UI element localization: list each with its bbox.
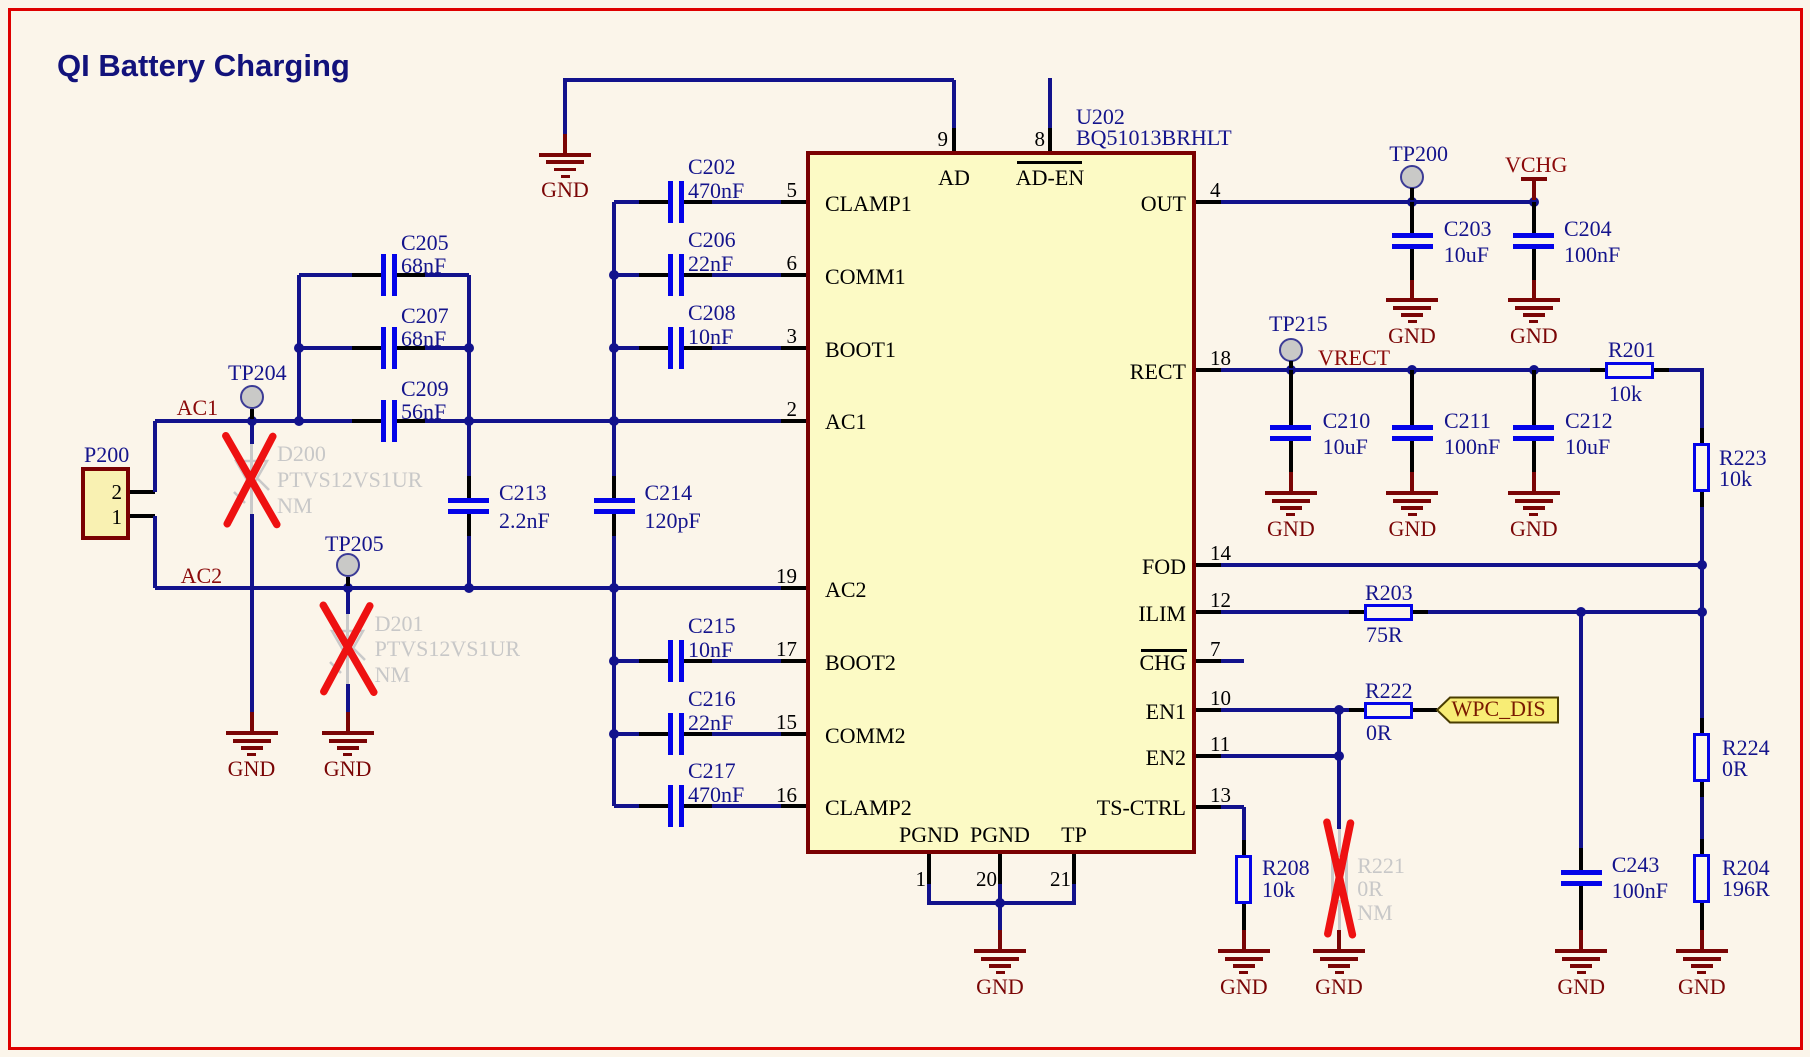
testpoint TP215 xyxy=(1279,338,1303,362)
pin 7 CHG stub xyxy=(1196,659,1221,663)
D200 labels xyxy=(277,443,326,465)
wire rail mid xyxy=(1700,507,1704,718)
wire C205 left xyxy=(299,273,352,277)
pin 3 BOOT1 stub xyxy=(781,346,806,350)
pin name PGND bottom xyxy=(779,824,1079,846)
pin name TS-CTRL xyxy=(886,797,1186,819)
diode D201 greyed xyxy=(346,614,349,684)
pin name RECT xyxy=(886,361,1186,383)
capacitor C209 xyxy=(352,419,381,423)
P200 pin1 label xyxy=(0,507,122,528)
pin 15 number xyxy=(497,712,797,733)
capacitor C206 xyxy=(639,273,668,277)
pin name AD xyxy=(804,167,1104,189)
D201 labels xyxy=(375,613,424,635)
pin name BOOT2 xyxy=(825,652,896,674)
wire C202 left xyxy=(614,200,639,204)
ground PGND xyxy=(974,949,1026,953)
pin 14 number xyxy=(1210,543,1231,564)
wire right bus to C213 xyxy=(467,421,471,478)
gnd stem C210 xyxy=(1289,463,1293,472)
gnd stem R204 xyxy=(1700,930,1704,949)
capacitor C207 xyxy=(352,346,381,350)
gnd stem D200 xyxy=(250,712,254,731)
junction OUT/TP200 xyxy=(1407,197,1417,207)
node AC2 label xyxy=(181,565,223,587)
TP205 label xyxy=(325,533,384,555)
junction rail/FOD xyxy=(1697,560,1707,570)
capacitor C203 xyxy=(1410,202,1414,235)
junction AC1/left bus xyxy=(294,416,304,426)
wire D201 to gnd xyxy=(346,684,350,712)
wire ILIM right xyxy=(1428,610,1702,614)
wire PGND riser 21 xyxy=(1072,884,1076,905)
pin 20 PGND stub xyxy=(998,854,1002,884)
pin 5 number xyxy=(497,180,797,201)
gnd stem C243 xyxy=(1579,886,1583,930)
pin name AC2 xyxy=(825,579,867,601)
junction rail/ILIM xyxy=(1697,607,1707,617)
pin 18 number xyxy=(1210,348,1231,369)
pin 19 number xyxy=(497,566,797,587)
ground C210 xyxy=(1265,491,1317,495)
wire D200 to gnd xyxy=(250,514,254,712)
power VCHG xyxy=(1532,181,1536,200)
node AC1 label xyxy=(177,397,219,419)
pin 1 number xyxy=(626,869,926,890)
diode D200 greyed xyxy=(250,444,253,514)
junction EN2 branch xyxy=(1334,751,1344,761)
gnd stem D201 xyxy=(346,712,350,731)
pin name TP bottom xyxy=(924,824,1224,846)
junction left bus C207 xyxy=(294,343,304,353)
wire C205 right xyxy=(425,273,469,277)
wire P200 pin1 dropper xyxy=(153,516,157,588)
junction OUT/VCHG xyxy=(1529,197,1539,207)
resistor R208 xyxy=(1242,840,1246,855)
wire C217 left xyxy=(614,804,639,808)
ground C211 xyxy=(1386,491,1438,495)
testpoint TP200 xyxy=(1400,165,1424,189)
ground R204 xyxy=(1676,949,1728,953)
pin name EN2 xyxy=(886,747,1186,769)
P200 pin 2 stub xyxy=(130,490,155,494)
pin 17 BOOT2 stub xyxy=(781,659,806,663)
pin 11 EN2 stub xyxy=(1196,754,1221,758)
capacitor C214 xyxy=(612,476,616,498)
P200 pin 1 stub xyxy=(130,514,155,518)
wire rail lower xyxy=(1700,797,1704,839)
wire FOD xyxy=(1221,563,1702,567)
ground C243 xyxy=(1555,949,1607,953)
wire AC1 segment a xyxy=(155,419,353,423)
gnd stem R208 xyxy=(1242,930,1246,949)
gnd stem C203 xyxy=(1410,270,1414,280)
testpoint TP205 xyxy=(336,553,360,577)
wire C216 right xyxy=(712,732,781,736)
gnd stem C212 xyxy=(1532,463,1536,472)
gnd stem R221 xyxy=(1337,930,1341,949)
pin 4 OUT stub xyxy=(1196,200,1221,204)
wire top gnd drop xyxy=(563,80,567,135)
pin 9 stub xyxy=(952,128,956,151)
pin 21 number xyxy=(771,869,1071,890)
pin name EN1 xyxy=(886,701,1186,723)
wire C216 left xyxy=(614,732,639,736)
pin 4 number xyxy=(1210,180,1221,201)
ground R208 xyxy=(1218,949,1270,953)
pin 16 CLAMP2 stub xyxy=(781,804,806,808)
junction mid bus C216 xyxy=(609,729,619,739)
pin 15 COMM2 stub xyxy=(781,732,806,736)
wire right bus upper xyxy=(467,275,471,421)
gnd stem top xyxy=(563,134,567,153)
wire RECT xyxy=(1221,368,1590,372)
pin name CLAMP2 xyxy=(825,797,912,819)
resistor R222 xyxy=(1349,708,1364,712)
wire R222 to port xyxy=(1413,708,1438,712)
wire C215 right xyxy=(712,659,781,663)
resistor R201 xyxy=(1590,368,1605,372)
junction RECT/TP215 xyxy=(1286,365,1296,375)
wire AC1 segment b xyxy=(425,419,781,423)
wire C208 left xyxy=(614,346,639,350)
wire EN2 xyxy=(1221,754,1339,758)
capacitor C213 xyxy=(467,476,471,498)
pin 8 stub xyxy=(1048,128,1052,151)
wire TS-CTRL xyxy=(1221,805,1244,809)
junction EN1 branch xyxy=(1334,705,1344,715)
wire TP204 down xyxy=(250,421,254,445)
ground R221 xyxy=(1313,949,1365,953)
wire PGND riser 20 xyxy=(998,884,1002,905)
capacitor C210 xyxy=(1289,370,1293,427)
wire C243 drop xyxy=(1579,612,1583,854)
resistor R224 xyxy=(1700,718,1704,733)
wire C208 right xyxy=(712,346,781,350)
wire ILIM left xyxy=(1221,610,1349,614)
wire left bus xyxy=(297,275,301,421)
junction AC1/mid bus xyxy=(609,416,619,426)
pin 12 ILIM stub xyxy=(1196,610,1221,614)
wire EN1 branch down xyxy=(1337,710,1341,829)
pin 17 number xyxy=(497,639,797,660)
wire C206 left xyxy=(614,273,639,277)
capacitor C211 xyxy=(1410,370,1414,427)
pin name AC1 xyxy=(825,411,867,433)
wire pin 9 vertical xyxy=(952,80,956,129)
pin 16 number xyxy=(497,785,797,806)
P200 label xyxy=(84,444,129,466)
gnd stem C211 xyxy=(1410,463,1414,472)
junction mid bus C206 xyxy=(609,270,619,280)
gnd stem C204 xyxy=(1532,270,1536,280)
wire mid bus lower xyxy=(612,536,616,807)
pin 8 number xyxy=(745,129,1045,150)
wire OUT xyxy=(1221,200,1534,204)
testpoint TP204 xyxy=(240,385,264,409)
pin 10 number xyxy=(1210,688,1231,709)
pin name ILIM xyxy=(886,603,1186,625)
wire CHG stub xyxy=(1221,659,1244,663)
pin 9 number xyxy=(648,129,948,150)
wire PGND riser 1 xyxy=(927,884,931,905)
junction AC1/right bus xyxy=(464,416,474,426)
pin 19 AC2 stub xyxy=(781,586,806,590)
pin 1 PGND stub xyxy=(927,854,931,884)
wire PGND horizontal xyxy=(929,901,1074,905)
resistor R204 xyxy=(1700,839,1704,854)
pin 10 EN1 stub xyxy=(1196,708,1221,712)
resistor R221 greyed xyxy=(1338,829,1341,854)
node VRECT label xyxy=(1318,347,1390,369)
pin 13 TS-CTRL stub xyxy=(1196,805,1221,809)
wire C213 to AC2 xyxy=(467,536,471,589)
wire R201 to rail xyxy=(1669,368,1704,372)
capacitor C217 xyxy=(639,804,668,808)
pin name CHG with overline xyxy=(886,652,1186,674)
wire C206 right xyxy=(712,273,781,277)
connector P200 body xyxy=(81,467,130,540)
junction mid bus C215 xyxy=(609,656,619,666)
capacitor C205 xyxy=(352,273,381,277)
junction AC1/TP204 xyxy=(247,416,257,426)
junction mid bus C208 xyxy=(609,343,619,353)
pin 13 number xyxy=(1210,785,1231,806)
pin 6 number xyxy=(497,253,797,274)
capacitor C243 xyxy=(1579,854,1583,870)
TP204 label xyxy=(228,362,287,384)
ground top xyxy=(539,153,591,157)
pin name PGND bottom xyxy=(850,824,1150,846)
pin name COMM2 xyxy=(825,725,906,747)
wire top horizontal to pin 9 xyxy=(563,78,954,82)
pin name COMM1 xyxy=(825,266,906,288)
pin 11 number xyxy=(1210,734,1230,755)
pin 2 number xyxy=(497,399,797,420)
wire C207 right xyxy=(425,346,469,350)
op-amp U202 body xyxy=(806,151,1196,854)
ground C203 xyxy=(1386,298,1438,302)
pin name AD-EN xyxy=(900,167,1200,189)
pin 2 AC1 stub xyxy=(781,419,806,423)
capacitor C212 xyxy=(1532,370,1536,427)
title QI Battery Charging xyxy=(57,50,350,81)
wire EN1 left xyxy=(1221,708,1349,712)
capacitor C215 xyxy=(639,659,668,663)
wire TP205 down xyxy=(346,588,350,614)
junction RECT/C212 xyxy=(1529,365,1539,375)
junction RECT/C211 xyxy=(1407,365,1417,375)
pin 21 TP stub xyxy=(1072,854,1076,884)
U202 designator label xyxy=(1076,106,1125,128)
capacitor C204 xyxy=(1532,202,1536,235)
ground D201 xyxy=(322,731,374,735)
junction AC2/mid bus xyxy=(609,583,619,593)
pin name FOD xyxy=(886,556,1186,578)
pin 3 number xyxy=(497,326,797,347)
pin 12 number xyxy=(1210,590,1231,611)
pin 14 FOD stub xyxy=(1196,563,1221,567)
junction PGND xyxy=(995,898,1005,908)
junction ILIM/C243 xyxy=(1576,607,1586,617)
wire C207 left xyxy=(299,346,352,350)
junction right bus C207 xyxy=(464,343,474,353)
pin 18 RECT stub xyxy=(1196,368,1221,372)
pin name BOOT1 xyxy=(825,339,896,361)
pin 7 number xyxy=(1210,639,1221,660)
wire mid bus upper xyxy=(612,202,616,478)
pin 6 COMM1 stub xyxy=(781,273,806,277)
resistor R223 xyxy=(1700,428,1704,443)
wire P200 pin2 riser xyxy=(153,421,157,493)
pin 20 number xyxy=(697,869,997,890)
resistor R203 xyxy=(1349,610,1364,614)
gnd stem PGND xyxy=(998,905,1002,930)
TP215 label xyxy=(1269,313,1328,335)
junction AC2/TP205 xyxy=(343,583,353,593)
capacitor C208 xyxy=(639,346,668,350)
TP200 label xyxy=(1389,143,1448,165)
pin name CLAMP1 xyxy=(825,193,912,215)
wire rail upper xyxy=(1700,368,1704,428)
ground D200 xyxy=(226,731,278,735)
wire AC2 segment a xyxy=(155,586,782,590)
pin 5 CLAMP1 stub xyxy=(781,200,806,204)
pin name OUT xyxy=(886,193,1186,215)
wire pin 8 vertical xyxy=(1048,78,1052,128)
ground C204 xyxy=(1508,298,1560,302)
wire C215 left xyxy=(614,659,639,663)
capacitor C216 xyxy=(639,732,668,736)
wire C202 right xyxy=(712,200,781,204)
ground C212 xyxy=(1508,491,1560,495)
capacitor C202 xyxy=(639,200,668,204)
wire C217 right xyxy=(712,804,781,808)
P200 pin2 label xyxy=(0,482,122,503)
junction AC2/C213 xyxy=(464,583,474,593)
